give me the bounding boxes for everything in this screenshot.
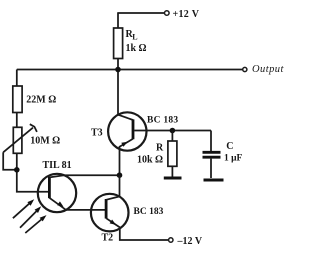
svg-text:22M Ω: 22M Ω (26, 95, 56, 106)
svg-text:10k Ω: 10k Ω (137, 154, 163, 165)
svg-text:–12 V: –12 V (177, 236, 203, 247)
svg-text:TIL 81: TIL 81 (43, 160, 72, 171)
svg-text:+12 V: +12 V (173, 9, 200, 20)
svg-text:C: C (226, 141, 233, 152)
svg-text:BC 183: BC 183 (134, 207, 164, 217)
svg-text:R: R (156, 142, 164, 153)
svg-text:T3: T3 (91, 127, 103, 138)
svg-text:1k Ω: 1k Ω (126, 43, 147, 54)
svg-text:L: L (132, 33, 137, 42)
svg-text:BC 183: BC 183 (147, 115, 178, 125)
svg-text:1 μF: 1 μF (224, 153, 243, 163)
svg-text:10M Ω: 10M Ω (30, 136, 60, 147)
svg-text:Output: Output (252, 64, 285, 75)
svg-text:T2: T2 (102, 232, 114, 243)
